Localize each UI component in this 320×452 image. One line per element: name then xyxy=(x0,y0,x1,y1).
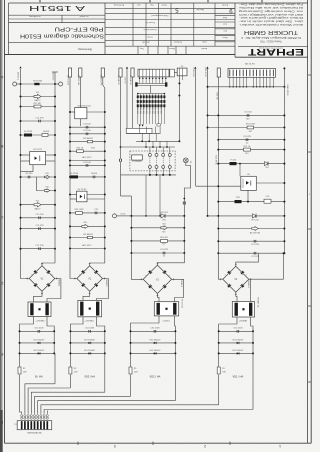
bridge A input wiring xyxy=(21,260,30,279)
connector X6 comb xyxy=(228,68,275,77)
staircase wire pin2 xyxy=(25,384,55,414)
ladder A right rail xyxy=(54,72,56,249)
frame ticks right edge xyxy=(308,74,312,76)
svg-text:V61 1N4007: V61 1N4007 xyxy=(232,339,244,341)
svg-text:Bemerkung: Bemerkung xyxy=(114,3,124,5)
connector X3 pin dots xyxy=(139,77,141,79)
chain 3 rung y353.4 xyxy=(131,352,176,354)
svg-text:und: und xyxy=(137,3,140,5)
connector X3 comb xyxy=(138,69,169,77)
svg-text:+24V/HA3: +24V/HA3 xyxy=(84,320,94,323)
ladder B rung y133.8 xyxy=(70,133,105,135)
svg-text:C61 100N: C61 100N xyxy=(233,328,243,330)
transformer T3 xyxy=(154,302,178,316)
matrix center drop xyxy=(150,86,152,94)
svg-text:B / HA: B / HA xyxy=(35,375,43,379)
transformer T2 xyxy=(78,300,102,316)
wires from pills down xyxy=(126,77,128,128)
chain 2 rung y342.9 xyxy=(70,342,104,344)
svg-text:C41 47N: C41 47N xyxy=(160,249,168,251)
svg-text:V61 1N4007: V61 1N4007 xyxy=(149,339,161,341)
svg-text:V31 BA157: V31 BA157 xyxy=(83,233,94,236)
ladder D rung y163.6 xyxy=(218,163,284,165)
output chain 4 rails xyxy=(218,331,220,366)
svg-text:1: 1 xyxy=(279,444,281,448)
ladder A rung y96.5 xyxy=(21,96,56,98)
chain 4 rung y342.9 xyxy=(219,342,253,344)
ladder A left rail top arrow xyxy=(19,66,21,68)
ladder B rung y127.2 xyxy=(70,126,105,128)
ladder A left rail xyxy=(20,69,22,260)
svg-text:C50 470U: C50 470U xyxy=(214,155,216,165)
ladder B regulator box U3 xyxy=(75,108,87,119)
chain 1 rung y353.4 xyxy=(20,352,55,354)
chain 1 rung y331.3 xyxy=(20,330,55,332)
ladder C rung y253.0 xyxy=(131,252,184,254)
svg-text:Name: Name xyxy=(160,3,166,5)
ladder C rung y215.9 xyxy=(131,215,184,217)
svg-text:R52 150R: R52 150R xyxy=(246,124,256,126)
svg-text:C12 47N: C12 47N xyxy=(36,214,44,216)
ladder C relay feed wires xyxy=(145,175,147,216)
ladder B rung y248.5 xyxy=(70,248,105,250)
svg-text:2: 2 xyxy=(204,444,206,448)
svg-text:C61 100N: C61 100N xyxy=(150,328,160,330)
wires to U5 xyxy=(196,185,241,187)
svg-text:MOTORA: MOTORA xyxy=(33,79,42,82)
svg-text:C57 47N: C57 47N xyxy=(251,244,259,246)
transformer T1 output wires xyxy=(20,317,34,332)
chain 3 rung y331.3 xyxy=(131,330,176,332)
chain 2 series resistor xyxy=(69,365,71,368)
ladder B rung y151.2 xyxy=(70,150,105,152)
svg-text:F: F xyxy=(1,420,3,424)
svg-text:24VAC4: 24VAC4 xyxy=(247,280,250,289)
svg-text:10R: 10R xyxy=(74,371,78,373)
svg-text:10R: 10R xyxy=(222,371,226,373)
svg-text:Schematic diagram E510H: Schematic diagram E510H xyxy=(20,32,104,38)
ladder D rung y241.2 xyxy=(218,240,284,242)
svg-text:A 1551H: A 1551H xyxy=(29,4,85,13)
ladder D IC box U5 xyxy=(241,176,256,190)
pin9 stub xyxy=(46,411,48,414)
svg-text:C61 100N: C61 100N xyxy=(34,328,44,330)
svg-text:den. Sie darf auch nicht in an: den. Sie darf auch nicht in an- xyxy=(238,20,303,23)
svg-text:Benennung: Benennung xyxy=(78,47,92,51)
svg-text:BA157: BA157 xyxy=(34,207,41,210)
svg-text:Blatt Nr.: Blatt Nr. xyxy=(196,8,204,11)
bridge D right corner wire to long rail xyxy=(249,278,284,280)
svg-text:L2-BAT60: L2-BAT60 xyxy=(129,75,132,85)
bridge C input wiring xyxy=(131,253,143,279)
transformer T4 output wires xyxy=(219,317,237,331)
svg-text:D-8500 Erlangen Max-Eyth-Str.: D-8500 Erlangen Max-Eyth-Str. 1 xyxy=(240,36,301,39)
svg-text:TUCKER GMBH: TUCKER GMBH xyxy=(244,29,298,35)
svg-text:V61 1N4007: V61 1N4007 xyxy=(84,339,96,341)
svg-text:VD2 / HA: VD2 / HA xyxy=(150,375,161,379)
svg-text:AN X6-PG: AN X6-PG xyxy=(245,62,255,65)
X5 wire down with dots xyxy=(178,76,180,142)
svg-text:MO: MO xyxy=(246,119,250,121)
svg-text:C31 10U: C31 10U xyxy=(83,130,91,132)
svg-text:24VDC-PG: 24VDC-PG xyxy=(100,75,102,86)
matrix second bus xyxy=(138,93,165,95)
relay K1 dashed box xyxy=(130,151,175,171)
svg-text:↑: ↑ xyxy=(308,192,310,196)
chain 3 rung y342.9 xyxy=(131,342,176,344)
svg-text:VD3 / HA: VD3 / HA xyxy=(84,375,95,379)
svg-text:24VAC3: 24VAC3 xyxy=(180,279,183,288)
bridge A output wiring xyxy=(34,291,43,302)
output chain 1 rails xyxy=(19,331,21,366)
ladder B terminal pills xyxy=(68,68,71,77)
svg-text:+24V-L60: +24V-L60 xyxy=(192,67,194,77)
svg-text:R41 4K7: R41 4K7 xyxy=(160,237,169,239)
svg-text:ADJ SPL85: ADJ SPL85 xyxy=(250,231,261,234)
svg-text:GND-PG60: GND-PG60 xyxy=(286,84,288,96)
svg-text:Blatt: Blatt xyxy=(223,16,227,19)
svg-text:A.Weyd: A.Weyd xyxy=(173,41,181,44)
ladder A rung y106.5 xyxy=(21,106,56,108)
staircase wire pin3 xyxy=(28,388,70,414)
svg-text:MO: MO xyxy=(249,131,253,133)
svg-text:C31 10U: C31 10U xyxy=(83,124,91,126)
svg-text:P6b ETF-CPU: P6b ETF-CPU xyxy=(55,25,104,31)
connector X5 small box xyxy=(177,68,187,76)
connector X3 extra cell xyxy=(170,69,175,77)
bridge rectifier V6 ladder B xyxy=(77,266,103,292)
ladder B rung y165.4 xyxy=(70,164,105,166)
ladder A rung y204.7 xyxy=(21,204,56,206)
rung y115 ladder D xyxy=(208,114,285,116)
chain 1 rung y342.9 xyxy=(20,342,55,344)
main bus over relay xyxy=(136,140,179,142)
svg-text:darf sie weder vervielfältigt: darf sie weder vervielfältigt noch xyxy=(238,13,303,16)
sheet count 9 xyxy=(215,8,235,10)
svg-text:Für diese Zeichnung und das Ge: Für diese Zeichnung und das Ger- xyxy=(239,2,303,5)
chain 1 series resistor xyxy=(19,365,21,368)
svg-text:-24V/BAT: -24V/BAT xyxy=(239,320,248,323)
svg-text:V61 1N4007: V61 1N4007 xyxy=(149,350,161,352)
ladder A rung y228.6 xyxy=(21,228,56,230)
chain 4 rung y331.3 xyxy=(219,330,253,332)
title block left box A1551H xyxy=(8,3,10,55)
chain 2 rung y353.4 xyxy=(70,352,104,354)
svg-text:+24V/HA2: +24V/HA2 xyxy=(35,320,45,323)
svg-text:240V-N0: 240V-N0 xyxy=(52,72,54,81)
svg-text:TR.LS 24: TR.LS 24 xyxy=(181,298,183,308)
svg-text:U3 B250C1500: U3 B250C1500 xyxy=(77,105,92,107)
matrix resistor rows xyxy=(137,94,139,110)
filter box under middle pills xyxy=(126,128,152,133)
svg-text:C12 47N: C12 47N xyxy=(36,245,44,247)
relay K1 contacts xyxy=(148,153,151,156)
X5 second wire xyxy=(182,76,184,80)
ladder D rung y228.5 xyxy=(218,228,284,230)
ladder B rung y212.9 xyxy=(70,212,105,214)
ladder A rung y177.0 xyxy=(21,176,56,178)
ladder C rung y227.8 xyxy=(131,227,184,229)
svg-text:K1 RELAY: K1 RELAY xyxy=(132,160,142,163)
U5 top feed wire xyxy=(239,164,241,177)
relay K1 coil xyxy=(132,155,143,160)
connector X6 pin drop wires xyxy=(229,77,231,87)
svg-text:Tag: Tag xyxy=(150,3,153,5)
chain1 left rail to pin1 xyxy=(20,380,22,414)
svg-text:V61 1N4007: V61 1N4007 xyxy=(33,339,45,341)
chain 3 series resistor xyxy=(130,365,132,368)
svg-text:24VAC2: 24VAC2 xyxy=(105,279,108,288)
svg-text:ADJ SPLY: ADJ SPLY xyxy=(82,244,92,247)
frame ticks top edge xyxy=(39,0,41,2)
title block middle table xyxy=(105,8,235,10)
ladder D rung y253.2 xyxy=(218,252,284,254)
svg-text:Anzahl: Anzahl xyxy=(221,4,228,7)
ladder A rung y135.0 xyxy=(21,134,56,136)
svg-text:L1-BAT60: L1-BAT60 xyxy=(117,75,120,85)
svg-text:V61 1N4007: V61 1N4007 xyxy=(33,350,45,352)
svg-text:gez.: gez. xyxy=(223,29,227,31)
ladder A terminal circles xyxy=(13,82,17,86)
bridge D bottom wiring xyxy=(236,292,237,301)
svg-text:SHELF-A1: SHELF-A1 xyxy=(77,75,80,86)
svg-text:Norm: Norm xyxy=(222,36,227,38)
svg-text:GL806: GL806 xyxy=(91,173,98,175)
ladder B right rail xyxy=(102,77,104,85)
ladder B rung y226.4 xyxy=(70,225,105,227)
svg-text:24V-UC60: 24V-UC60 xyxy=(67,75,69,86)
svg-text:derer Weise missbraucht werden: derer Weise missbraucht werden. xyxy=(238,23,303,26)
bridge B output wiring xyxy=(83,291,90,300)
ladder C left rail from relay wire xyxy=(120,175,122,196)
svg-text:R33 150R: R33 150R xyxy=(74,209,84,211)
svg-text:240V-L1: 240V-L1 xyxy=(17,72,19,81)
svg-text:R51 2K: R51 2K xyxy=(216,92,218,100)
ladder B left rail xyxy=(69,77,71,254)
svg-text:3: 3 xyxy=(114,444,116,448)
staircase wire pin4 xyxy=(31,392,105,414)
cap on left relay wire xyxy=(119,159,121,162)
ladder C cap on right rail top xyxy=(182,202,184,205)
bridge rectifier V8 ladder D xyxy=(223,266,249,292)
chain 2 rung y331.3 xyxy=(70,330,104,332)
relay bottom bus xyxy=(121,174,177,176)
transformer T4 xyxy=(232,302,254,318)
svg-text:10R: 10R xyxy=(23,371,27,373)
frame left border xyxy=(4,0,6,443)
svg-text:ADJ SPLY: ADJ SPLY xyxy=(82,156,92,159)
ladder D rung y139.7 xyxy=(218,139,284,141)
svg-text:Telefon 09131 / 7700: Telefon 09131 / 7700 xyxy=(260,40,282,42)
bus under X6 xyxy=(208,86,285,88)
output chain 3 rails xyxy=(130,331,132,366)
ladder B rung y141.6 xyxy=(70,141,105,143)
svg-text:R31 1K: R31 1K xyxy=(77,148,84,150)
svg-text:U4 TIL111: U4 TIL111 xyxy=(77,189,87,191)
svg-text:SL-PR60: SL-PR60 xyxy=(70,173,79,175)
svg-text:MAINS/BAT-HA: MAINS/BAT-HA xyxy=(28,431,43,434)
bridge C output wiring xyxy=(157,294,159,302)
frame ticks and numbers bottom edge xyxy=(77,442,79,446)
svg-text:V61 1N4007: V61 1N4007 xyxy=(232,350,244,352)
secondary bus over relay xyxy=(121,146,176,148)
svg-text:C12 47N: C12 47N xyxy=(36,117,44,119)
staircase wire pin7 xyxy=(41,405,219,414)
ladder A wire below opto xyxy=(21,165,34,172)
logo rule xyxy=(238,46,308,48)
svg-text:vor. Ohne vorherige Zustimmung: vor. Ohne vorherige Zustimmung xyxy=(238,9,303,12)
svg-text:Ersatz für: Ersatz für xyxy=(145,21,155,24)
svg-text:bearb.: bearb. xyxy=(201,47,208,50)
svg-text:10R: 10R xyxy=(134,371,138,373)
rung y127 ladder D xyxy=(208,127,285,129)
ladder C right rail from X4 jog xyxy=(184,163,190,253)
staircase wire pin5 xyxy=(35,396,131,413)
frame right double border xyxy=(307,0,309,443)
svg-text:EPHART: EPHART xyxy=(247,47,304,57)
bridge rectifier V5 ladder A xyxy=(29,266,55,292)
svg-text:Urspr: Urspr xyxy=(147,35,153,38)
svg-text:rev status: rev status xyxy=(80,15,89,18)
ladder A rung y84.0 xyxy=(21,83,56,85)
ladder B opto IC box U4 xyxy=(77,191,88,202)
connector pin circle X4 xyxy=(183,158,188,163)
svg-text:24VAC1: 24VAC1 xyxy=(57,279,60,288)
ladder B rung y176.9 xyxy=(70,176,105,178)
ladder D rung y149.6 xyxy=(218,149,284,151)
svg-text:C31 10U: C31 10U xyxy=(83,162,91,164)
staircase wire pin8 xyxy=(44,410,253,414)
ladder D rung y215.9 xyxy=(208,215,285,217)
ladder A opto IC box U2 xyxy=(30,152,46,165)
svg-text:MO: MO xyxy=(162,231,166,233)
svg-text:F1 2A: F1 2A xyxy=(230,159,236,162)
svg-text:TR.BAT 24: TR.BAT 24 xyxy=(257,297,260,308)
svg-text:C51 10U: C51 10U xyxy=(244,112,252,114)
svg-text:R51 1K: R51 1K xyxy=(244,146,251,148)
svg-text:C52 47N: C52 47N xyxy=(243,136,251,138)
ladder B rung y160.5 xyxy=(70,160,105,162)
ladder A partial rung y190.5 xyxy=(37,177,56,191)
svg-text:R6 JR4: R6 JR4 xyxy=(26,173,34,175)
svg-text:N-GE: N-GE xyxy=(121,214,126,216)
svg-text:SL-PR60: SL-PR60 xyxy=(24,131,33,133)
ladder B mid wire xyxy=(79,77,81,108)
svg-text:+5V-ST: +5V-ST xyxy=(124,76,126,84)
svg-text:Ersetzt durch: Ersetzt durch xyxy=(143,28,157,31)
svg-text:V31 BA157: V31 BA157 xyxy=(83,137,94,140)
svg-text:C61 100N: C61 100N xyxy=(85,328,95,330)
svg-text:24V-ST60: 24V-ST60 xyxy=(204,67,206,78)
ladder D rung y201 xyxy=(218,201,284,203)
svg-text:VD1 / HA: VD1 / HA xyxy=(232,375,243,379)
svg-text:C12 47N: C12 47N xyxy=(36,225,44,227)
chain 4 series resistor xyxy=(218,365,220,368)
ladder C top terminal circle xyxy=(113,214,117,218)
ladder A rung y217.8 xyxy=(21,217,56,219)
matrix column tails xyxy=(137,110,139,125)
svg-text:U2 TIL111: U2 TIL111 xyxy=(33,149,43,151)
double bus under X3 xyxy=(137,83,167,85)
frame bottom border xyxy=(5,442,312,444)
svg-text:ät behalten wir uns alle Recht: ät behalten wir uns alle Rechte xyxy=(237,6,303,9)
svg-text:GL806: GL806 xyxy=(43,131,50,133)
transformer T3 output wires xyxy=(131,316,160,331)
output chain 2 rails xyxy=(69,331,71,366)
svg-text:MO: MO xyxy=(245,153,249,155)
svg-text:an änderung: an änderung xyxy=(29,15,40,17)
svg-text:Zust: Zust xyxy=(223,23,227,26)
transformer T1 xyxy=(28,302,51,317)
ladder D up arrows xyxy=(194,67,196,69)
bridge B input wiring xyxy=(70,254,77,279)
svg-text:BA157: BA157 xyxy=(34,99,41,102)
svg-text:V57 Z12: V57 Z12 xyxy=(251,220,259,222)
ladder A rung y248.7 xyxy=(21,248,56,250)
svg-text:Zeichnungsgeard: Zeichnungsgeard xyxy=(151,14,169,17)
svg-text:Name: Name xyxy=(168,47,175,49)
ladder B rung y237.5 xyxy=(70,237,105,239)
connector X1 body xyxy=(17,421,52,430)
svg-text:29.8.85: 29.8.85 xyxy=(142,41,150,43)
relay feeds down xyxy=(145,141,147,147)
drops to main bus xyxy=(141,133,143,141)
ladder A rung y121.0 xyxy=(21,120,56,122)
wire from X3 right to X5 xyxy=(174,72,177,74)
terminal pills middle group xyxy=(119,68,122,77)
terminal pill x218 xyxy=(217,68,220,77)
svg-text:V61 1N4007: V61 1N4007 xyxy=(84,350,96,352)
staircase wire pin6 xyxy=(38,401,176,414)
svg-text:R12 4K7: R12 4K7 xyxy=(34,103,43,105)
ladder C rung y240.9 xyxy=(131,240,184,242)
bridge rectifier V7 ladder C xyxy=(143,265,171,293)
matrix tail marks xyxy=(139,125,141,127)
svg-text:Dritten zugänglich gemacht wer: Dritten zugänglich gemacht wer- xyxy=(239,16,303,19)
right long rail xyxy=(283,68,285,253)
svg-text:gepr.: gepr. xyxy=(201,41,206,44)
svg-text:+24V/LS: +24V/LS xyxy=(162,321,170,323)
title block outer lines xyxy=(9,2,308,4)
connector X1 pin symbols xyxy=(21,415,23,417)
matrix converge verticals xyxy=(139,127,141,134)
scan edge shadow left xyxy=(0,0,2,452)
up arrow net middle xyxy=(126,67,128,69)
bridge D input wiring xyxy=(218,253,223,279)
transformer T2 output wires xyxy=(70,317,83,332)
svg-text:V41 Z24: V41 Z24 xyxy=(160,212,168,214)
chain 4 rung y353.4 xyxy=(219,352,253,354)
svg-text:MO: MO xyxy=(162,244,166,246)
